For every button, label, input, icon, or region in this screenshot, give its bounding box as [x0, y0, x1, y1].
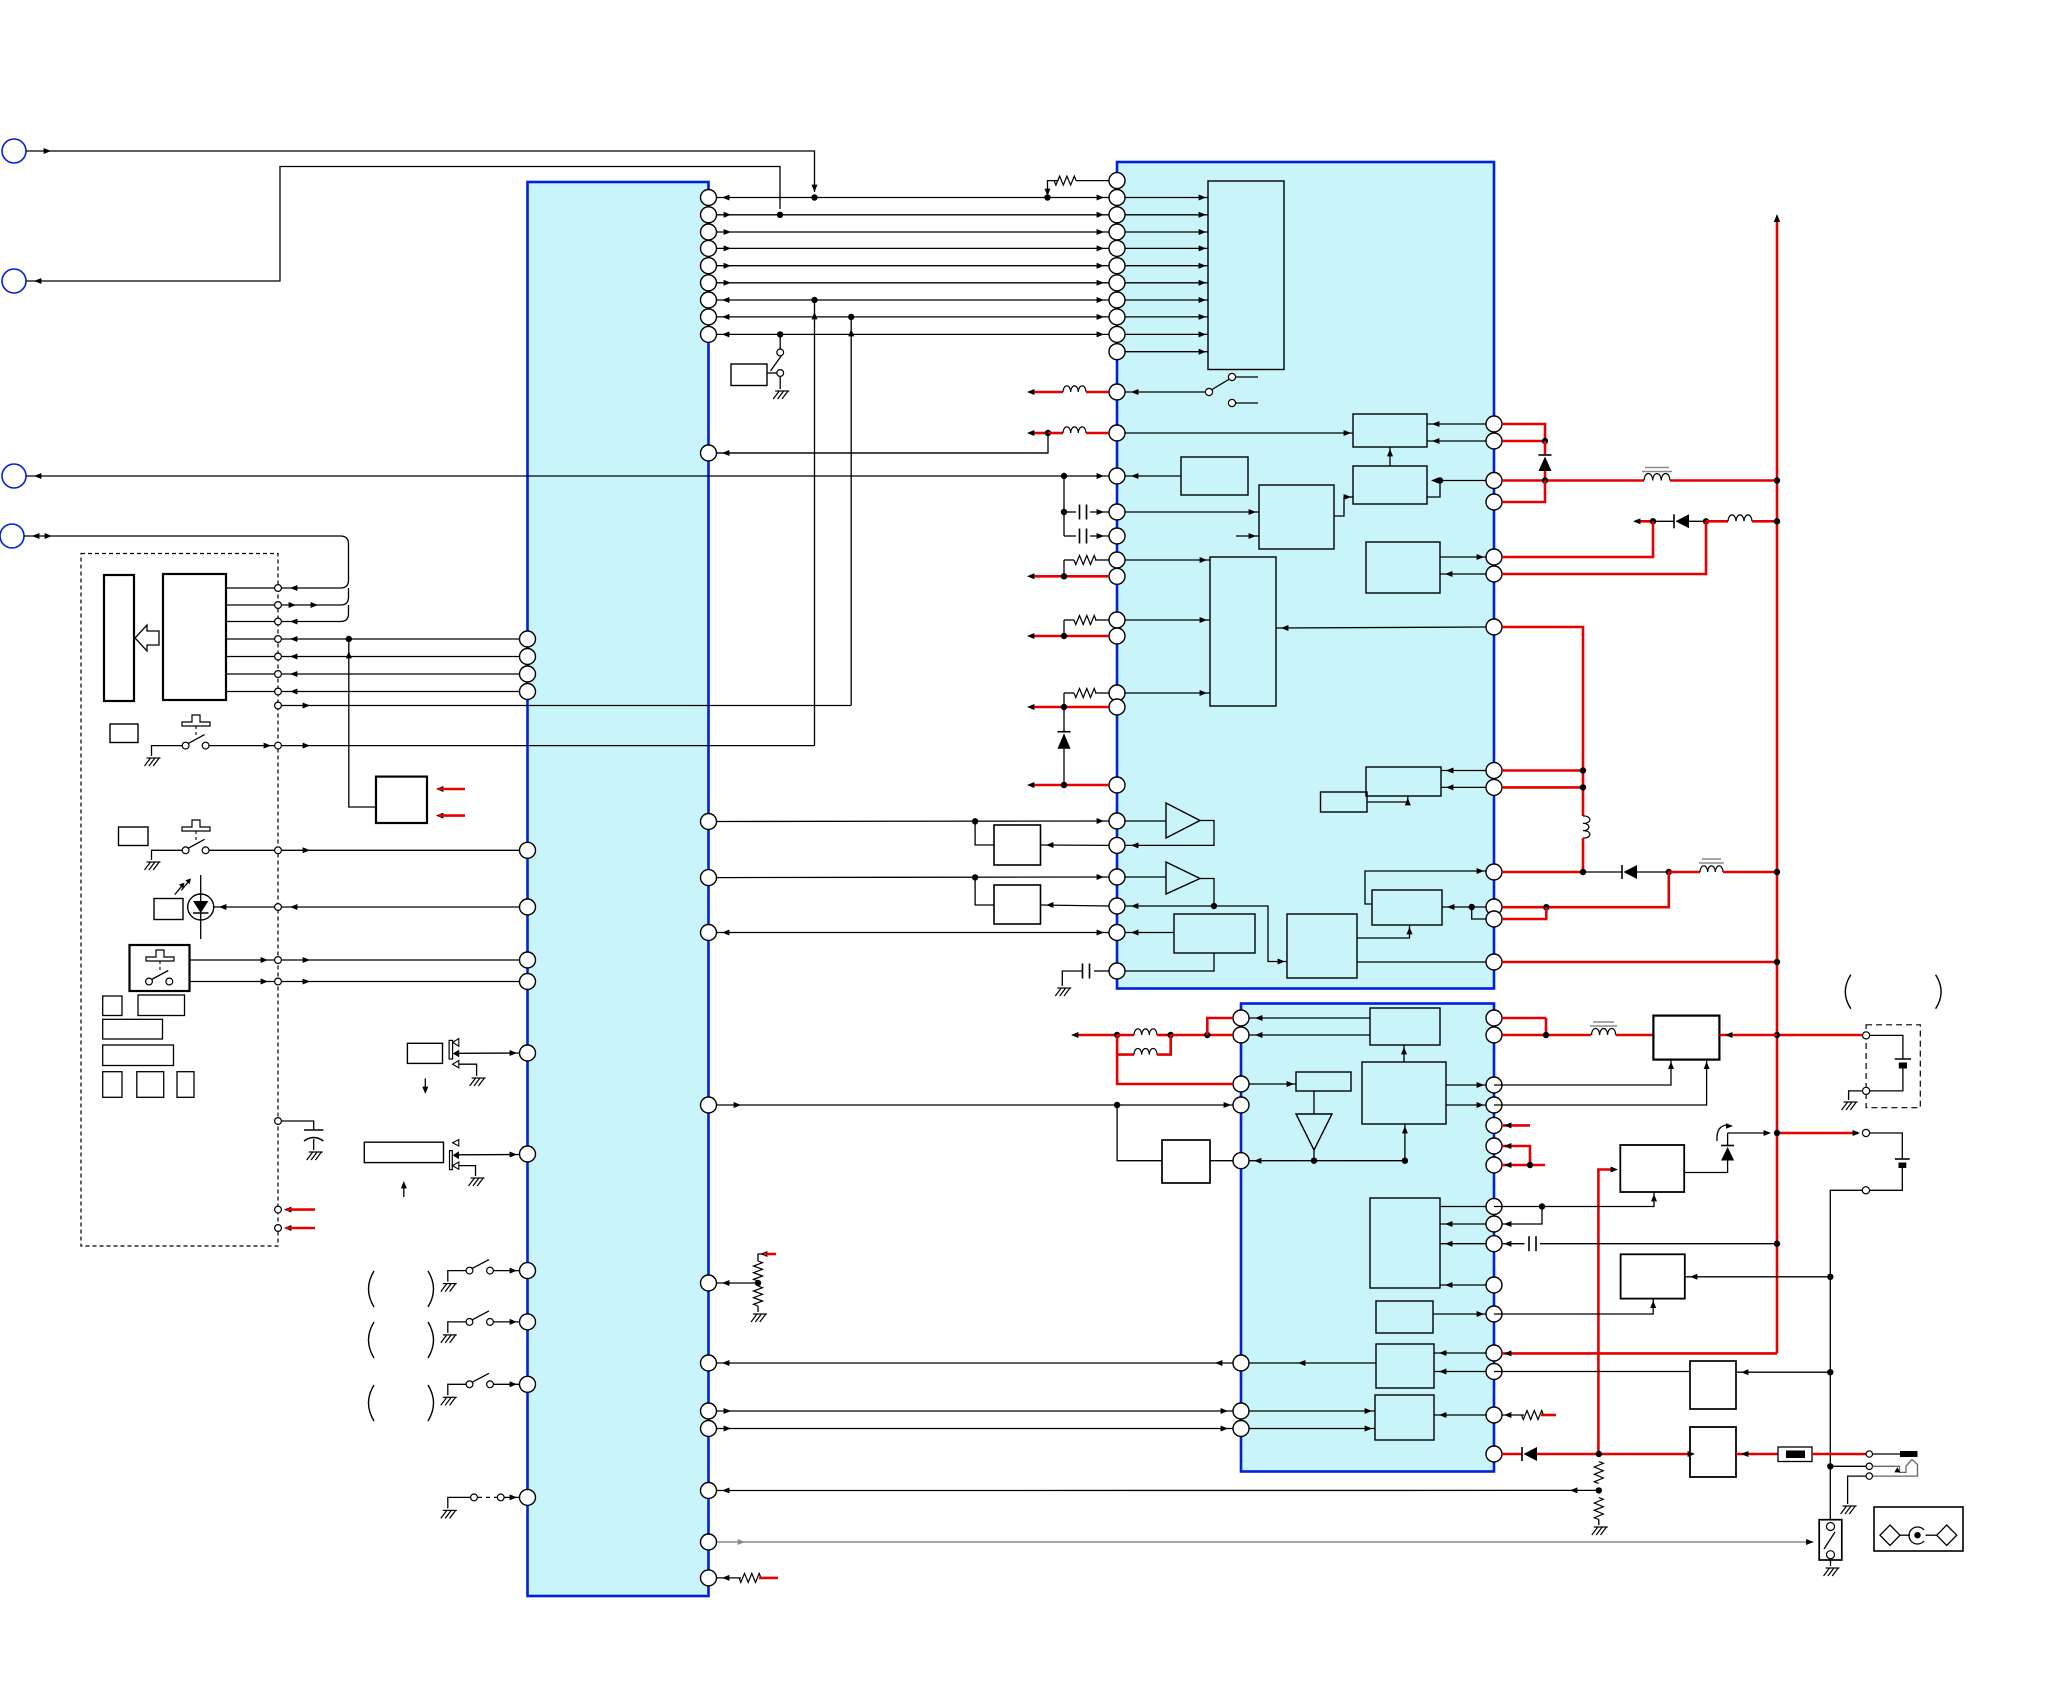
IC1 right pin y=1542: [701, 1534, 717, 1550]
IC1 right pin y=282.8: [701, 275, 717, 291]
IC3 box b3B: [1362, 1062, 1446, 1124]
wire b2M to pin962: [1357, 961, 1486, 963]
battery B1 cell: [1870, 1035, 1903, 1059]
motor M1 driver bar: [449, 1040, 453, 1059]
bus wire row8: [717, 316, 1109, 318]
red input to box H: [1598, 1170, 1612, 1455]
wire b2L bottom to pin971: [1125, 953, 1214, 971]
long wire IC1-IC3 y1428: [717, 1428, 1233, 1430]
hold switch box: [1819, 1520, 1842, 1560]
bus wire row9: [717, 333, 1109, 335]
IC3 left pin y=1084: [1233, 1076, 1249, 1092]
reset box H2: [1621, 1254, 1685, 1298]
wire b2m to b2n: [1367, 796, 1408, 802]
IC3 right pin y=1035: [1486, 1027, 1502, 1043]
red wire y1035 to battery connector: [1777, 1034, 1862, 1037]
IC3 right pin y=1454: [1486, 1446, 1502, 1462]
resistor into pin y=620: [1095, 619, 1109, 621]
IC3 left pin y=1035: [1233, 1027, 1249, 1043]
IC1 right pin y=1363: [701, 1355, 717, 1371]
key block dashed outline: [81, 554, 278, 1247]
IC1 right pin y=1105: [701, 1097, 717, 1113]
wire pin560 to b2h: [1125, 559, 1210, 561]
IC3 right pin y=1146: [1486, 1138, 1502, 1154]
vertical cap chain x1064: [1063, 476, 1065, 536]
thermal curved arrow: [1717, 1125, 1728, 1141]
wire RF1 to IC2 pin845: [1041, 844, 1110, 846]
IC2 left pin y=845.4: [1109, 837, 1125, 853]
power switch box I: [1690, 1427, 1736, 1477]
wire pin1084 to b3C: [1249, 1083, 1296, 1085]
wire pin627 to b2h: [1276, 627, 1486, 628]
IC3 right pin y=1285: [1486, 1277, 1502, 1293]
IC1 right pin y=1428.5: [701, 1421, 717, 1437]
legend plug circle: [1909, 1527, 1924, 1544]
SW-A ground: [152, 746, 183, 756]
IC1 system control microprocessor block: [528, 182, 709, 1596]
display window box T1: [104, 575, 134, 701]
red wire pin502 up to y480: [1502, 481, 1545, 503]
IC3 box b3D: [1370, 1198, 1440, 1288]
IC2 right pin y=441: [1486, 433, 1502, 449]
wire pin1411 to b3G: [1249, 1410, 1375, 1412]
parens sw3: [369, 1385, 375, 1421]
IC2 left pin y=351.7: [1109, 344, 1125, 360]
wire ring to minus bus: [1830, 1465, 1866, 1467]
red power input y1454: [1502, 1453, 1522, 1456]
red supply wire y=576.3: [1032, 575, 1109, 578]
LED wire to IC1: [214, 906, 520, 908]
IC2 right pin y=907: [1486, 899, 1502, 915]
IC2 left pin y=316.9: [1109, 309, 1125, 325]
record wire1: [190, 959, 520, 961]
IC2 left pin y=971: [1109, 963, 1125, 979]
IC2 left pin y=232.0: [1109, 224, 1125, 240]
SW-B ground: [152, 850, 183, 860]
wire b3E to pin1314: [1433, 1313, 1486, 1315]
IC1 right pin y=1577.9: [701, 1570, 717, 1586]
IC1 left pin y=960: [520, 952, 536, 968]
IC2 left pin y=560: [1109, 552, 1125, 568]
IC2 right pin y=919: [1486, 911, 1502, 927]
legend diamond right: [1937, 1525, 1957, 1545]
junction A2 out: [1211, 903, 1217, 909]
junction row1 from CN1: [811, 194, 817, 200]
big arrow glyph: [135, 625, 159, 651]
wire junction821 to RF1: [975, 821, 994, 845]
M2 open triangle bottom: [453, 1162, 459, 1169]
IC3 right pin y=1206.5: [1486, 1199, 1502, 1215]
IC1 right pin y=1490.5: [701, 1483, 717, 1499]
wire node to b3B bottom: [1404, 1124, 1406, 1161]
wire inverter to node1160: [1313, 1150, 1315, 1161]
SW-B wire to IC1: [209, 849, 520, 851]
wire b2e up to b2d: [1389, 447, 1391, 466]
M1 ground stub: [459, 1064, 477, 1076]
red wire pin1353 from rail: [1502, 1352, 1777, 1355]
wire H2 to minus bus: [1685, 1276, 1831, 1278]
wire pin1371 to b3F: [1434, 1371, 1486, 1373]
IC2 left pin y=334.4: [1109, 326, 1125, 342]
resistor + red stub pin1415: [1502, 1414, 1524, 1416]
wire CN3 line y476: [2, 464, 26, 488]
IC2 left pin y=265.7: [1109, 258, 1125, 274]
wire junction877 to RF2: [975, 877, 994, 905]
gray line IC1 pin1542 to hold switch: [717, 1541, 1814, 1543]
DC jack ring contact: [1866, 1463, 1872, 1469]
standby switch ground: [779, 376, 781, 389]
M1 filled arrow: [453, 1050, 459, 1058]
IC1 right pin y=1283: [701, 1275, 717, 1291]
M2 filled arrow: [453, 1151, 459, 1159]
remote receiver box T2: [163, 574, 226, 700]
wire b2b to pin476: [1125, 475, 1181, 477]
IC2 focus coil drive box b2d: [1353, 414, 1427, 447]
wire IC1-IC2 row 821: [717, 820, 1109, 823]
IC1 right pin y=453: [701, 445, 717, 461]
standby switch: [777, 349, 784, 356]
branch to pin1224: [1502, 1207, 1542, 1225]
connector CN4 circle: [0, 524, 24, 548]
wire b3B to pin1085: [1446, 1084, 1486, 1086]
wire pin1243 to b3D: [1440, 1243, 1486, 1245]
M1 open triangle bottom: [453, 1061, 459, 1068]
IC2 decoder input wire: [1125, 265, 1208, 267]
red supply wire y=707: [1032, 706, 1109, 709]
IC2 decoder input wire: [1125, 351, 1208, 353]
IC1 bottom resistor red stub: [717, 1577, 741, 1579]
red wire y1133 from rail to battery B2: [1777, 1132, 1858, 1135]
ripple filter box RF2: [994, 885, 1041, 924]
wire b2f to pin557: [1440, 556, 1486, 558]
sleeve to ground: [1848, 1476, 1867, 1504]
battery B1 dashed box: [1866, 1025, 1920, 1108]
IC1 right pin y=334.4: [701, 326, 717, 342]
red supply wire y785: [1032, 784, 1109, 787]
red vertical to pin1084: [1117, 1055, 1233, 1084]
motor M2 box: [364, 1142, 443, 1162]
IC2 left pin y=512: [1109, 504, 1125, 520]
supply y872 diode D3 inductor L6 to rail: [1502, 871, 1583, 874]
DC plug symbol: [1873, 1460, 1918, 1477]
IC2 left pin y=693: [1109, 685, 1125, 701]
IC2 right pin y=574: [1486, 566, 1502, 582]
IC2 decoder input wire: [1125, 282, 1208, 284]
IC3 left pin y=1160.7: [1233, 1153, 1249, 1169]
RB2 red stub1: [436, 786, 443, 792]
plunger P2: [182, 820, 210, 831]
IC2 decoder input wire: [1125, 197, 1208, 199]
junction 1206: [1539, 1203, 1545, 1209]
wire b2c to b2e: [1334, 497, 1344, 516]
battery B2 wiring: [1870, 1133, 1903, 1159]
IC3 box b3C: [1296, 1072, 1351, 1091]
DC jack tip contact: [1866, 1451, 1872, 1457]
junction row8: [848, 314, 854, 320]
wire b3D to pin1206: [1440, 1206, 1486, 1208]
wire pin1160 internal: [1249, 1160, 1405, 1162]
key square S1: [110, 724, 138, 743]
IC2 left pin y=180.6: [1109, 173, 1125, 189]
M2 floating triangle: [453, 1140, 459, 1147]
M1 open triangle top: [453, 1039, 459, 1047]
vertical wire row9 to standby switch: [779, 334, 781, 349]
IC3 box b3G: [1375, 1395, 1434, 1440]
wire pin693 to b2h: [1125, 692, 1210, 694]
long wire IC1-IC3 y1411: [717, 1410, 1233, 1412]
IC1 right pin y=316.9: [701, 309, 717, 325]
vertical wire key-row7 (x=814.5): [814, 300, 816, 746]
long wire IC1-IC3 y1363: [717, 1362, 1233, 1364]
standby switch wire to coil: [767, 372, 777, 374]
IC2 right pin y=480.5: [1486, 473, 1502, 489]
mode switch y=1497.4: [471, 1494, 478, 1501]
IC2 box b2M: [1287, 914, 1357, 978]
capacitor C-1243 to rail: [1502, 1243, 1525, 1245]
battery B2 terminal bottom: [1862, 1187, 1869, 1194]
IC2 right pin y=962: [1486, 954, 1502, 970]
IC1 pin row10 wire from red node: [717, 452, 1048, 454]
IC2 sum box b2c: [1259, 485, 1334, 549]
IC2 left pin y=248.4: [1109, 240, 1125, 256]
diode D-441-480: [1544, 441, 1547, 455]
dashed box red stub2: [275, 1225, 282, 1232]
IC2 left pin y=707: [1109, 699, 1125, 715]
IC2 left pin y=282.8: [1109, 275, 1125, 291]
parentheses around battery note: [1845, 975, 1851, 1009]
LED indicator: [188, 894, 214, 920]
IC2 right pin y=557: [1486, 549, 1502, 565]
record plunger: [146, 950, 174, 961]
IC1 right pin y=214.8: [701, 207, 717, 223]
regulator box H: [1620, 1145, 1684, 1192]
red wire box I to fuse: [1736, 1453, 1778, 1456]
mode switch y=1321.9: [466, 1319, 473, 1326]
IC1 left pin y=1053: [520, 1045, 536, 1061]
power control box RB2: [376, 777, 427, 823]
inductor L8 cored into box J: [1545, 1018, 1548, 1035]
record switch contacts: [146, 978, 153, 985]
resistor into pin y=560: [1095, 559, 1109, 561]
black branch from L2 node to IC1 pin453: [717, 433, 1048, 453]
mode switch y=1270.6: [466, 1267, 473, 1274]
IC2 box b2m: [1321, 792, 1368, 812]
IC1 right pin y=248.4: [701, 240, 717, 256]
remote row y=621.5: [226, 621, 341, 623]
dashed box red stub1: [275, 1206, 282, 1213]
red wire pin962 to rail: [1502, 961, 1777, 964]
IC3 left pin y=1018: [1233, 1010, 1249, 1026]
red branch to pins907/919: [1502, 872, 1669, 907]
capacitor C-ic2 bottom left + ground: [1094, 970, 1109, 972]
IC2 right pin y=770.5: [1486, 763, 1502, 779]
long wire IC1 pin1490 to divider: [717, 1489, 1599, 1491]
wire b2M to b2k: [1357, 925, 1410, 938]
key data row y=639: [226, 638, 520, 640]
record wire2: [190, 981, 520, 983]
IC1 left pin y=981.5: [520, 974, 536, 990]
junction 1105: [1114, 1102, 1120, 1108]
junction 476: [1061, 473, 1067, 479]
LED emission arrows: [175, 886, 182, 895]
IC2 left pin y=620: [1109, 612, 1125, 628]
resistor into pin y=693: [1095, 692, 1109, 694]
red wire node521 to pin557: [1502, 521, 1653, 557]
key switch SW-B: [182, 847, 189, 854]
IC3 right pin y=1243.7: [1486, 1236, 1502, 1252]
inductor L7a: [1114, 1032, 1120, 1038]
IC2 decoder input wire: [1125, 231, 1208, 233]
mode switch y=1384.3: [466, 1381, 473, 1388]
IC3 box b3E: [1376, 1301, 1433, 1333]
IC2 left pin y=300.0: [1109, 292, 1125, 308]
wire pin1206 to box H bottom: [1494, 1192, 1654, 1207]
M2 ground stub: [459, 1166, 476, 1176]
red wire to pins 1018/1035: [1171, 1034, 1233, 1037]
IC3 right pin y=1105: [1486, 1097, 1502, 1113]
resistor R-row1 to IC2 pin1: [1048, 181, 1059, 192]
remote row y=588: [226, 587, 341, 589]
key data row y=656.5: [226, 656, 520, 658]
DC jack sleeve contact: [1866, 1473, 1872, 1479]
red supply wire y=636: [1032, 635, 1109, 638]
hold switch ground: [1830, 1560, 1832, 1566]
key square S2: [119, 827, 149, 846]
capacitor C-536: [1064, 535, 1076, 537]
wire pin480 to b2e: [1440, 480, 1486, 482]
motor M2 up arrow: [403, 1183, 405, 1197]
wire RF2 to IC2 pin906: [1041, 905, 1110, 906]
junction row7: [811, 297, 817, 303]
legend diamond left: [1880, 1525, 1900, 1545]
IC1 right pin y=877.6: [701, 870, 717, 886]
red wire + inductor L2 IC2 pin433: [1032, 432, 1048, 435]
IC2 decoder input wire: [1125, 214, 1208, 216]
IC2 left pin y=392: [1109, 384, 1125, 400]
supply branch y521 with diode D2 and inductor L4: [1636, 520, 1653, 523]
IC3 right pin y=1125.4: [1486, 1117, 1502, 1133]
wire b3F to pin1363 left: [1296, 1362, 1376, 1364]
vertical to power box: [349, 639, 376, 807]
junction row9: [777, 331, 783, 337]
IC1 left pin y=691.5: [520, 684, 536, 700]
wire b2n pin770: [1441, 770, 1486, 772]
IC1 right pin y=232.0: [701, 224, 717, 240]
wire pin1085 to box J bottom: [1494, 1060, 1671, 1085]
diode D4 to rail top: [1728, 1132, 1769, 1134]
IC2 servo box b2h: [1210, 557, 1276, 706]
IC1 left pin y=674: [520, 666, 536, 682]
red wire fuse to DC jack: [1812, 1453, 1866, 1456]
junction 821: [972, 818, 978, 824]
IC2 left pin y=536: [1109, 528, 1125, 544]
wire b3B up to b3A: [1403, 1045, 1405, 1062]
wire pin1415 to b3G right: [1434, 1414, 1486, 1416]
wire pin620 to b2h: [1125, 619, 1210, 621]
IC2 left pin y=785: [1109, 777, 1125, 793]
IC3 right pin y=1224: [1486, 1216, 1502, 1232]
wire b3C to inverter: [1313, 1091, 1315, 1114]
wire CN2 to bus row2: [26, 167, 780, 282]
red corner pins1146/1165: [1502, 1146, 1530, 1165]
wire b2k to pin907: [1442, 906, 1486, 908]
LED series box S3: [154, 899, 183, 920]
IC2 left pin y=576.3: [1109, 568, 1125, 584]
wire CN1 to bus row1: [26, 151, 815, 192]
remote row y=605: [226, 604, 341, 606]
IC2 decoder input wire: [1125, 333, 1208, 335]
wire A2 output loop to pin906: [1125, 879, 1214, 907]
IC3 right pin y=1085: [1486, 1077, 1502, 1093]
IC1 pin1283 divider: [717, 1282, 758, 1284]
connector CN1 circle: [2, 139, 26, 163]
IC3 box b3A: [1370, 1008, 1440, 1045]
wire pin1371 to box P: [1494, 1371, 1690, 1373]
junction 512: [1061, 509, 1067, 515]
red branch pins770/787: [1502, 769, 1583, 772]
junction row1 resistor branch: [1044, 194, 1050, 200]
wire b3A to pin1018: [1249, 1017, 1370, 1019]
IC2 box b2b: [1181, 457, 1248, 495]
wire branch to pin919: [1472, 907, 1486, 919]
IC2 box b2n: [1366, 767, 1441, 796]
IC1 left pin y=1270.6: [520, 1263, 536, 1279]
wire b2d to pin424: [1427, 423, 1486, 425]
IC2 right pin y=627: [1486, 619, 1502, 635]
IC2 left pin y=636: [1109, 628, 1125, 644]
wire pin932 to b2L: [1125, 932, 1174, 934]
junction 877: [972, 874, 978, 880]
wire IC1-IC2 row 877: [717, 876, 1109, 879]
motor M1 box: [407, 1043, 442, 1063]
red wire node521b to pin574: [1502, 521, 1706, 574]
wire b3B to pin1105: [1446, 1104, 1486, 1106]
DC jack tip bar: [1873, 1453, 1901, 1455]
parens sw2: [369, 1322, 375, 1358]
IC1 right pin y=932.5: [701, 925, 717, 941]
key data row y=674: [226, 673, 520, 675]
red line y1035 left arrow: [1076, 1034, 1117, 1037]
long wire IC1 pin1105 to IC3 pin1105: [717, 1104, 1233, 1106]
battery minus vertical bus: [1830, 1190, 1862, 1519]
red stub pin1125: [1502, 1124, 1530, 1127]
key matrix boxes: [103, 996, 122, 1016]
IC2 left pin y=214.8: [1109, 207, 1125, 223]
branch down to mute box V: [1117, 1105, 1162, 1161]
red wire pin627 down inductor L5 to y872: [1502, 627, 1583, 816]
record switch box RB: [130, 945, 190, 991]
ripple filter box RF1: [994, 825, 1041, 865]
DC-DC box J: [1653, 1016, 1719, 1060]
parens sw1: [369, 1271, 375, 1307]
IC2 audio amp A1 triangle: [1166, 803, 1200, 838]
IC1 left pin y=1321.9: [520, 1314, 536, 1330]
battery B1 terminal bottom + ground: [1863, 1087, 1870, 1094]
key data row y=691.5: [226, 691, 520, 693]
junction row2 from CN2: [777, 212, 783, 218]
motor M2 wire: [459, 1154, 520, 1156]
wire pin1428 to b3G: [1249, 1428, 1375, 1430]
IC3 left pin y=1411: [1233, 1403, 1249, 1419]
IC3 right pin y=1353: [1486, 1345, 1502, 1361]
CN4 wire with curls to rows: [24, 535, 341, 537]
bus wire row2: [717, 214, 1109, 216]
junction b2k out: [1469, 904, 1475, 910]
fuse F1: [1778, 1447, 1812, 1462]
IC3 right pin y=1371.5: [1486, 1364, 1502, 1380]
IC2 left pin y=821: [1109, 813, 1125, 829]
wire pin821 to A1: [1125, 820, 1166, 822]
